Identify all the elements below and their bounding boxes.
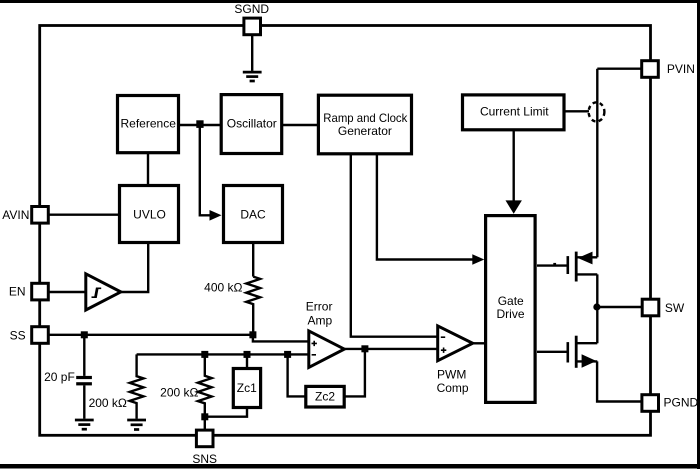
wire SS rail xyxy=(48,334,253,336)
svg-text:Amp: Amp xyxy=(308,314,333,328)
wire Zc2 right leg to EA output xyxy=(344,349,365,397)
svg-text:AVIN: AVIN xyxy=(2,208,29,222)
svg-text:400 kΩ: 400 kΩ xyxy=(204,281,242,295)
wire cap to ground xyxy=(83,385,85,418)
wire Current Limit to current sensor xyxy=(566,110,590,112)
pin PVIN xyxy=(642,61,659,78)
page border bottom xyxy=(0,464,700,469)
node SNS junction xyxy=(201,413,208,420)
wire EN to buffer xyxy=(48,291,86,293)
wire Oscillator to Ramp generator xyxy=(282,124,318,126)
op-amp U1 Error Amp xyxy=(309,331,345,368)
svg-text:200 kΩ: 200 kΩ xyxy=(89,396,127,410)
arrowhead into DAC xyxy=(210,210,222,221)
svg-text:Reference: Reference xyxy=(121,117,177,131)
svg-text:EN: EN xyxy=(9,285,26,299)
node EA output junction xyxy=(361,345,368,352)
block Current Limit xyxy=(463,95,565,130)
pin SW xyxy=(642,299,659,316)
arrowhead into Gate Drive xyxy=(472,254,484,265)
svg-text:200 kΩ: 200 kΩ xyxy=(160,386,198,400)
block DAC xyxy=(224,186,283,243)
node Zc2 / EA minus junction xyxy=(284,351,291,358)
transistor Q2 (low-side) xyxy=(537,336,597,368)
block Ramp and Clock Generator xyxy=(318,95,411,154)
wire PWM comp output to Gate Drive xyxy=(473,342,486,344)
svg-text:DAC: DAC xyxy=(240,208,266,222)
svg-text:Drive: Drive xyxy=(496,307,524,321)
node 400k junction xyxy=(249,331,256,338)
svg-text:Gate: Gate xyxy=(498,294,524,308)
arrowhead into Gate Drive top xyxy=(506,200,522,213)
node reference-oscillator junction xyxy=(196,120,203,128)
svg-text:SW: SW xyxy=(665,301,685,315)
block UVLO xyxy=(120,186,179,243)
svg-text:PWM: PWM xyxy=(437,368,466,382)
node Zc1 top junction xyxy=(244,351,251,358)
block Oscillator xyxy=(221,95,282,154)
wire ramp to PWM comp minus xyxy=(351,154,438,337)
svg-text:Zc2: Zc2 xyxy=(315,390,335,404)
wire PVIN drain vertical xyxy=(596,69,598,258)
wire Zc2 left leg xyxy=(288,354,306,396)
IC boundary box xyxy=(40,26,651,436)
svg-text:20 pF: 20 pF xyxy=(44,370,75,384)
svg-text:Current Limit: Current Limit xyxy=(480,105,549,119)
block Gate Drive xyxy=(486,216,535,403)
wire SGND to ground xyxy=(251,34,253,71)
wire Zc1 top stub xyxy=(246,354,248,368)
wire junction to DAC xyxy=(200,126,211,215)
svg-text:Zc1: Zc1 xyxy=(237,381,257,395)
wire 20pF stub xyxy=(83,335,85,376)
capacitor C1 20 pF xyxy=(76,376,92,386)
page border top xyxy=(0,0,700,3)
block Reference xyxy=(118,96,179,153)
wire EA output to PWM comp xyxy=(344,348,438,350)
wire Reference to UVLO xyxy=(147,152,149,186)
pin SS xyxy=(32,327,49,344)
wire Q2 source to PGND xyxy=(597,361,642,401)
comparator U3 PWM Comp xyxy=(438,326,473,361)
wire Reference to Oscillator xyxy=(180,124,221,126)
svg-text:PGND: PGND xyxy=(664,395,699,409)
pin EN xyxy=(32,283,49,300)
pin PGND xyxy=(642,395,659,412)
resistor R1 400 kOhm xyxy=(246,277,260,335)
pin SNS xyxy=(196,430,213,447)
svg-text:Generator: Generator xyxy=(338,124,392,138)
node SS junction xyxy=(81,331,88,338)
block Zc1 xyxy=(233,369,260,408)
wire SW node to SW pin xyxy=(597,306,642,308)
svg-text:PVIN: PVIN xyxy=(667,62,695,76)
ground (SGND) xyxy=(243,72,262,81)
pin SGND xyxy=(244,18,261,35)
pin AVIN xyxy=(32,207,49,224)
svg-text:SNS: SNS xyxy=(192,452,217,466)
resistor R2 200 kOhm (left) xyxy=(130,354,144,418)
ground (R2) xyxy=(127,420,146,430)
resistor R3 200 kOhm (right) xyxy=(198,354,212,430)
current sensor (dashed circle) xyxy=(589,102,605,121)
transistor Q1 (high-side) xyxy=(537,252,597,282)
svg-text:Oscillator: Oscillator xyxy=(227,117,277,131)
wire buffer output to UVLO xyxy=(121,242,148,292)
svg-text:SS: SS xyxy=(10,329,26,343)
wire DAC to 400k resistor xyxy=(252,242,254,277)
svg-text:SGND: SGND xyxy=(234,2,269,16)
svg-text:Error: Error xyxy=(306,299,333,313)
wire Zc1 bottom to SNS node xyxy=(205,406,247,417)
wire Current Limit down to Gate Drive xyxy=(513,130,515,201)
svg-text:Comp: Comp xyxy=(437,381,469,395)
wire Q1 source to SW node xyxy=(596,274,598,343)
wire PVIN to high-side FET drain xyxy=(597,67,642,69)
wire feedback rail (EA minus net) xyxy=(137,353,309,355)
node R3 top junction xyxy=(201,351,208,358)
buffer U2 (EN schmitt buffer) xyxy=(86,274,121,310)
wire AVIN to UVLO xyxy=(48,213,120,215)
wire ramp clock to Gate Drive xyxy=(377,154,473,260)
svg-text:UVLO: UVLO xyxy=(133,208,166,222)
ground (20 pF) xyxy=(75,420,94,429)
node SW junction xyxy=(593,303,600,310)
page border right xyxy=(697,0,700,469)
svg-text:Ramp and Clock: Ramp and Clock xyxy=(323,111,408,125)
wire 400k junction to Error Amp plus input xyxy=(253,335,309,342)
block Zc2 xyxy=(306,386,344,407)
